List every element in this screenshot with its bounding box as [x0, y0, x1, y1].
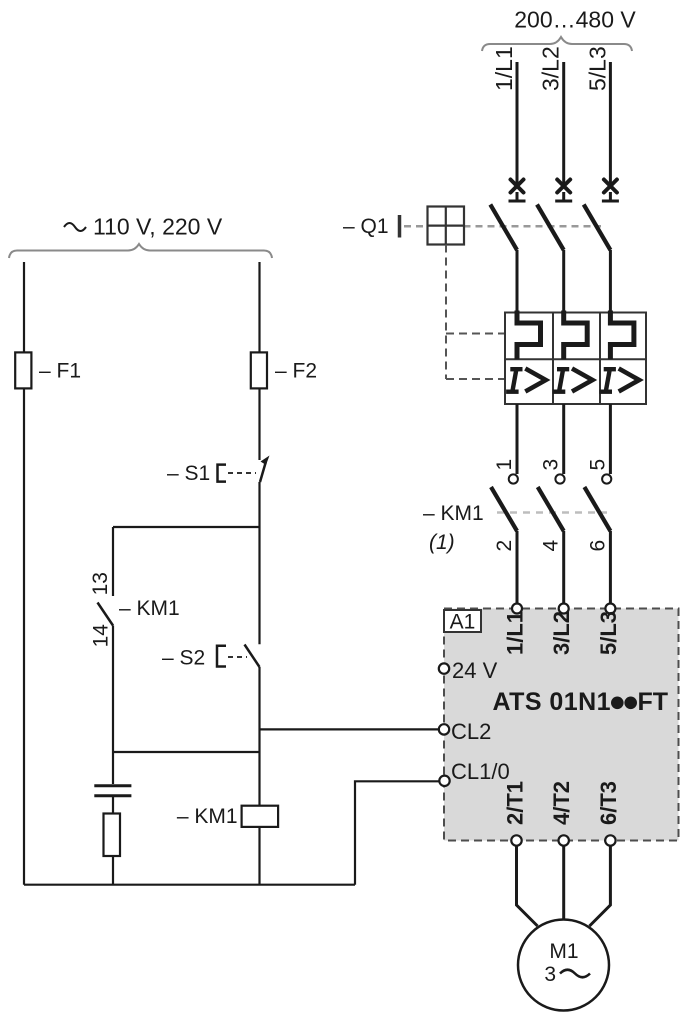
svg-text:CL1/0: CL1/0	[451, 759, 510, 784]
svg-text:– Q1: – Q1	[343, 215, 389, 238]
svg-text:– KM1: – KM1	[423, 502, 484, 525]
svg-text:– S1: – S1	[167, 462, 210, 485]
svg-text:1/L1: 1/L1	[491, 46, 517, 91]
svg-text:24 V: 24 V	[452, 658, 498, 683]
svg-text:5/L3: 5/L3	[596, 611, 621, 655]
svg-text:– KM1: – KM1	[177, 805, 238, 828]
svg-text:3: 3	[544, 963, 556, 986]
svg-text:ATS 01N1: ATS 01N1	[493, 688, 611, 716]
svg-text:5/L3: 5/L3	[584, 46, 610, 91]
svg-text:– KM1: – KM1	[119, 597, 180, 620]
svg-text:– F1: – F1	[39, 360, 81, 383]
svg-text:(1): (1)	[429, 531, 455, 554]
svg-text:2/T1: 2/T1	[503, 781, 528, 825]
svg-text:4: 4	[540, 540, 563, 552]
svg-text:13: 13	[89, 572, 112, 595]
svg-text:4/T2: 4/T2	[549, 781, 574, 825]
svg-text:1/L1: 1/L1	[503, 611, 528, 655]
svg-text:1: 1	[493, 459, 516, 471]
svg-text:6: 6	[586, 540, 609, 552]
svg-text:6/T3: 6/T3	[596, 781, 621, 825]
svg-text:110 V, 220 V: 110 V, 220 V	[93, 214, 223, 240]
svg-text:M1: M1	[549, 940, 578, 963]
svg-text:3/L2: 3/L2	[538, 46, 564, 91]
svg-text:– S2: – S2	[162, 647, 205, 670]
svg-text:– F2: – F2	[275, 360, 317, 383]
svg-text:CL2: CL2	[451, 719, 491, 744]
svg-text:5: 5	[586, 459, 609, 471]
svg-text:14: 14	[90, 624, 113, 648]
svg-text:A1: A1	[450, 611, 476, 634]
svg-text:3/L2: 3/L2	[549, 611, 574, 655]
svg-text:3: 3	[540, 459, 563, 471]
svg-text:200…480 V: 200…480 V	[514, 7, 636, 33]
svg-text:FT: FT	[638, 688, 669, 716]
svg-text:2: 2	[493, 540, 516, 552]
